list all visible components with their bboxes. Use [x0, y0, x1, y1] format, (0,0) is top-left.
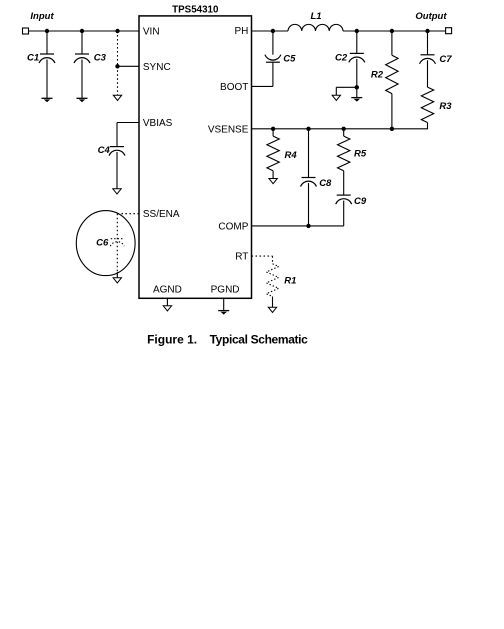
svg-text:Input: Input: [30, 11, 54, 22]
svg-text:C8: C8: [319, 178, 332, 189]
svg-text:VIN: VIN: [143, 26, 160, 37]
svg-text:C6: C6: [96, 237, 109, 248]
svg-text:R3: R3: [439, 101, 452, 112]
svg-text:R4: R4: [285, 150, 298, 161]
svg-text:VSENSE: VSENSE: [208, 124, 249, 135]
svg-text:C5: C5: [283, 53, 296, 64]
svg-text:COMP: COMP: [218, 221, 248, 232]
svg-text:SS/ENA: SS/ENA: [143, 209, 180, 220]
svg-text:C3: C3: [94, 53, 107, 64]
svg-text:Figure 1.: Figure 1.: [147, 332, 197, 346]
svg-text:C9: C9: [354, 196, 367, 207]
svg-text:Output: Output: [415, 11, 447, 22]
svg-text:Typical Schematic: Typical Schematic: [210, 332, 309, 346]
svg-text:TPS54310: TPS54310: [172, 4, 219, 15]
svg-text:R5: R5: [354, 149, 367, 160]
svg-text:PH: PH: [234, 26, 248, 37]
svg-text:C2: C2: [335, 53, 348, 64]
svg-text:R1: R1: [284, 276, 296, 287]
svg-text:SYNC: SYNC: [143, 62, 171, 73]
svg-text:PGND: PGND: [211, 285, 240, 296]
svg-text:AGND: AGND: [153, 285, 182, 296]
svg-text:BOOT: BOOT: [220, 82, 248, 93]
svg-text:VBIAS: VBIAS: [143, 118, 173, 129]
svg-text:L1: L1: [310, 11, 321, 22]
svg-text:R2: R2: [371, 70, 384, 81]
svg-text:C7: C7: [439, 54, 452, 65]
svg-text:C4: C4: [98, 145, 111, 156]
svg-text:C1: C1: [27, 53, 39, 64]
svg-text:RT: RT: [235, 252, 248, 263]
